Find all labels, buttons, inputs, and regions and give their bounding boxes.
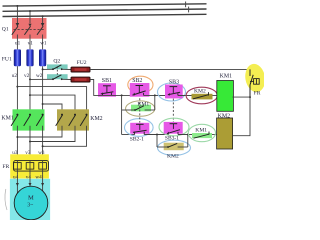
wire crossover u2 to KM2 pole3: [16, 86, 86, 115]
wire phase w FU1 to KM1: [42, 66, 44, 114]
svg-text:FR: FR: [2, 164, 9, 170]
node right join of SB2 parallel: [154, 94, 156, 96]
wire phase u FU1 to KM1: [16, 66, 18, 114]
wire SB3-1 to KM1 interlock: [178, 134, 217, 136]
node right rail junction: [249, 96, 251, 98]
pushbutton SB3-1 (NO of SB3): [164, 122, 183, 135]
highlight ellipse KM2 interlock: [186, 87, 217, 104]
svg-text:v2: v2: [24, 73, 30, 79]
wire branch down to second rung: [121, 95, 123, 134]
FR heater element pole2: [26, 163, 34, 170]
wire v2 to Q2 lower contact: [30, 78, 53, 80]
wire FR pole1 through: [16, 161, 18, 175]
pushbutton SB2 (forward start, NO): [130, 83, 150, 97]
motor M circle: [14, 186, 48, 220]
svg-text:Q2: Q2: [53, 59, 60, 65]
pushbutton SB3 (reverse NC): [165, 85, 183, 99]
node right join of KM2 self-hold: [187, 134, 189, 136]
highlight ellipse SB3-1: [159, 118, 189, 136]
fuse FU1 pole1: [14, 49, 21, 66]
svg-text:KM2: KM2: [218, 114, 230, 120]
bus line L3: [3, 14, 207, 16]
svg-text:SB2: SB2: [132, 78, 142, 84]
thermal contact FR (NC): [250, 69, 259, 97]
fuse FU2 lower: [71, 77, 90, 82]
wire FU2 lower to SB1: [90, 80, 99, 96]
contact KM2 self-hold (NO): [157, 135, 188, 151]
wire right rail down to KM2 coil: [233, 97, 250, 136]
wire SB3 to KM2 interlock: [178, 95, 219, 97]
Q2 lower contact blade: [52, 75, 63, 80]
wire KM1 coil to right rail: [233, 96, 251, 98]
mechanical link SB3 to SB3-1 dashed: [172, 99, 174, 122]
wire Q1 pole2 to FU1: [29, 35, 31, 50]
FR heater element pole3: [39, 163, 47, 170]
node on v2 feeding Q2: [29, 78, 31, 80]
svg-text:KM1: KM1: [1, 115, 13, 121]
svg-text:KM1: KM1: [195, 127, 207, 133]
KM1 main contact pole2: [24, 114, 31, 161]
svg-text:FR: FR: [254, 90, 261, 96]
switch Q2 box lower: [47, 74, 68, 79]
contact KM1 self-hold (NO): [122, 95, 155, 111]
wire motor lead w: [42, 175, 44, 194]
svg-text:u2: u2: [12, 73, 18, 79]
FR heater element pole1: [14, 163, 22, 170]
fuse FU1 pole2: [26, 49, 33, 66]
svg-text:KM1: KM1: [220, 74, 232, 80]
wire motor lead u: [16, 175, 18, 194]
wire SB2 to SB3: [144, 94, 170, 96]
svg-text:u1: u1: [15, 41, 21, 47]
FR heater outline: [14, 161, 49, 172]
highlight ellipse KM1 self-hold contact: [126, 101, 155, 116]
wire crossover v2 to KM2 pole2: [29, 94, 75, 115]
wire w2 to Q2 upper contact: [43, 68, 53, 70]
wire motor lead v: [29, 175, 31, 187]
wire FR pole2 through: [29, 161, 31, 175]
contact KM2 interlock (NC): [192, 92, 213, 99]
svg-text:SB3: SB3: [169, 79, 179, 85]
arrow motor lead u: [16, 183, 19, 186]
stray mark left of motor: [5, 189, 7, 210]
Q2 mechanical link dashed: [56, 66, 58, 77]
Q1 mechanical link dashed: [14, 29, 45, 31]
bus line L2: [3, 9, 207, 11]
contactor KM2 main box: [57, 109, 89, 130]
switch Q2 box upper: [47, 64, 68, 69]
node after SB1: [121, 94, 123, 96]
node on w2 feeding Q2: [42, 68, 44, 70]
wire second rung left: [122, 134, 135, 136]
svg-text:SB1: SB1: [102, 78, 112, 84]
KM1 main contact pole3: [36, 114, 43, 161]
wire SB1 row: [98, 94, 134, 96]
Q1 blade pole 3: [37, 26, 43, 35]
bus tick mark on L2: [188, 7, 190, 13]
highlight ellipse SB2: [128, 76, 153, 93]
highlight ellipse KM1 interlock: [188, 124, 215, 141]
thermal contact FR highlight blob: [243, 62, 267, 93]
wire phase v FU1 to KM1: [29, 66, 31, 114]
wire Q1 pole1 to FU1: [16, 35, 18, 50]
svg-text:3~: 3~: [27, 203, 33, 209]
Q1 blade pole 2: [24, 26, 30, 35]
svg-text:Q1: Q1: [2, 26, 9, 32]
svg-text:M: M: [28, 195, 34, 202]
thermal relay FR yellow box: [10, 154, 49, 178]
highlight ellipse SB2-1: [125, 119, 154, 137]
svg-text:KM2: KM2: [90, 116, 102, 122]
wire FR pole3 through: [42, 161, 44, 175]
svg-text:w1: w1: [40, 41, 47, 47]
highlight ellipse KM2 self-hold: [158, 140, 191, 155]
arrow motor lead v: [29, 183, 32, 186]
svg-text:FU1: FU1: [2, 57, 12, 63]
contact KM1 interlock (NC): [192, 132, 212, 139]
motor background: [10, 179, 50, 220]
KM2 main contact pole1: [16, 114, 63, 138]
Q1 blade pole 1: [12, 26, 18, 35]
switch Q1 red box: [12, 18, 47, 39]
Q2 upper contact blade: [52, 65, 63, 70]
arrow motor lead w: [41, 183, 44, 186]
fuse FU1 pole3: [39, 49, 46, 66]
wire Q2 upper to FU2: [62, 68, 71, 70]
svg-text:KM2: KM2: [167, 153, 179, 159]
pushbutton SB1 (stop, NC): [98, 83, 116, 97]
KM1 main contact pole1: [11, 114, 18, 161]
wire tap phase u from L1: [16, 5, 20, 27]
coil KM2: [217, 118, 233, 149]
wire control top rail to FR contact: [90, 68, 250, 70]
bus tick mark on L1: [185, 2, 187, 8]
svg-text:v1: v1: [28, 41, 34, 47]
contactor KM1 main box: [13, 109, 45, 130]
KM2 main contact pole2: [29, 114, 76, 143]
coil KM1: [217, 81, 234, 112]
node left join of KM2 self-hold: [156, 134, 158, 136]
fuse FU2 upper: [71, 67, 90, 72]
bus line L1: [3, 4, 207, 6]
wire Q1 pole3 to FU1: [42, 35, 44, 50]
wire tap phase w from L3: [41, 15, 45, 27]
svg-text:w2: w2: [36, 73, 43, 79]
wire SB2-1 to SB3-1: [144, 134, 168, 136]
svg-text:KM2: KM2: [194, 89, 206, 95]
highlight ellipse SB3: [158, 83, 186, 101]
svg-text:KM1: KM1: [137, 101, 149, 107]
wire tap phase v from L2: [28, 10, 31, 27]
KM2 main contact pole3: [42, 114, 88, 148]
wire Q2 lower to FU2: [62, 78, 71, 80]
pushbutton SB2-1 (NC of SB2): [130, 98, 149, 134]
wire crossover w2 to KM2 pole1: [42, 103, 62, 115]
svg-text:SB2-1: SB2-1: [130, 136, 144, 142]
svg-text:FU2: FU2: [77, 60, 87, 66]
